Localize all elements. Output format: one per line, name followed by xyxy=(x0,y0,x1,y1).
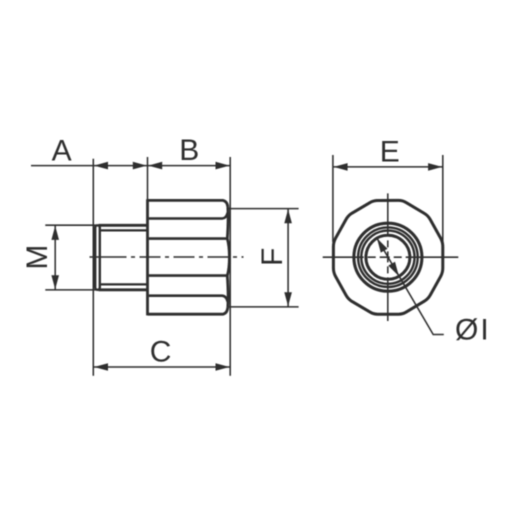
diameter arrow lower xyxy=(388,262,399,277)
arrow C right xyxy=(216,363,230,371)
male thread outer bottom edge xyxy=(99,288,148,291)
dimension line F xyxy=(287,209,289,307)
dimension line E xyxy=(333,166,443,168)
arrow M top xyxy=(51,226,59,240)
arrow B right xyxy=(216,162,230,170)
body facet line 1 xyxy=(149,213,228,219)
body facet line 3 xyxy=(149,274,228,277)
male thread minor line top xyxy=(101,229,148,231)
body facet line 4 xyxy=(149,296,228,302)
svg-text:F: F xyxy=(256,248,289,266)
circle outer xyxy=(354,223,422,291)
body right edge xyxy=(227,207,229,307)
extension line left (A/C) xyxy=(92,159,94,376)
diameter arrow upper xyxy=(377,238,388,253)
body left edge xyxy=(146,199,149,315)
body facet line 2 xyxy=(149,237,228,240)
svg-text:B: B xyxy=(179,134,199,167)
svg-text:A: A xyxy=(52,134,72,167)
body top edge xyxy=(148,200,228,207)
dimension line C xyxy=(93,366,230,368)
arrow A left xyxy=(94,162,108,170)
extension lines F xyxy=(229,208,299,210)
arrow C left xyxy=(94,363,108,371)
circle 3 xyxy=(361,231,414,284)
circle 2 xyxy=(358,227,418,287)
male thread chamfer ring xyxy=(95,225,100,289)
svg-text:ØI: ØI xyxy=(455,314,491,347)
arrow F bottom xyxy=(284,292,292,306)
extension line right (B/C) xyxy=(229,157,231,376)
svg-text:E: E xyxy=(380,136,400,169)
circle inner xyxy=(366,235,410,279)
dimension line A/B xyxy=(31,165,230,167)
extension line B left xyxy=(147,157,149,200)
body bottom edge xyxy=(148,307,228,314)
diameter leader line xyxy=(377,238,444,334)
centerline side view xyxy=(90,256,244,258)
front view centerline vertical xyxy=(387,193,389,321)
arrow E right xyxy=(428,163,442,171)
arrow M bottom xyxy=(51,275,59,289)
extension lines E xyxy=(332,155,334,242)
arrow F top xyxy=(284,209,292,223)
svg-text:C: C xyxy=(150,335,172,368)
arrow A right xyxy=(133,162,147,170)
body polygon (front view) xyxy=(333,200,442,314)
svg-text:M: M xyxy=(21,245,54,270)
dimension line M xyxy=(54,225,56,290)
arrow B left xyxy=(148,162,162,170)
male thread minor line bottom xyxy=(101,283,148,285)
extension lines M xyxy=(45,224,97,226)
arrow E left xyxy=(334,163,348,171)
male thread outer top edge xyxy=(99,224,148,227)
front view centerline horizontal xyxy=(323,256,459,258)
